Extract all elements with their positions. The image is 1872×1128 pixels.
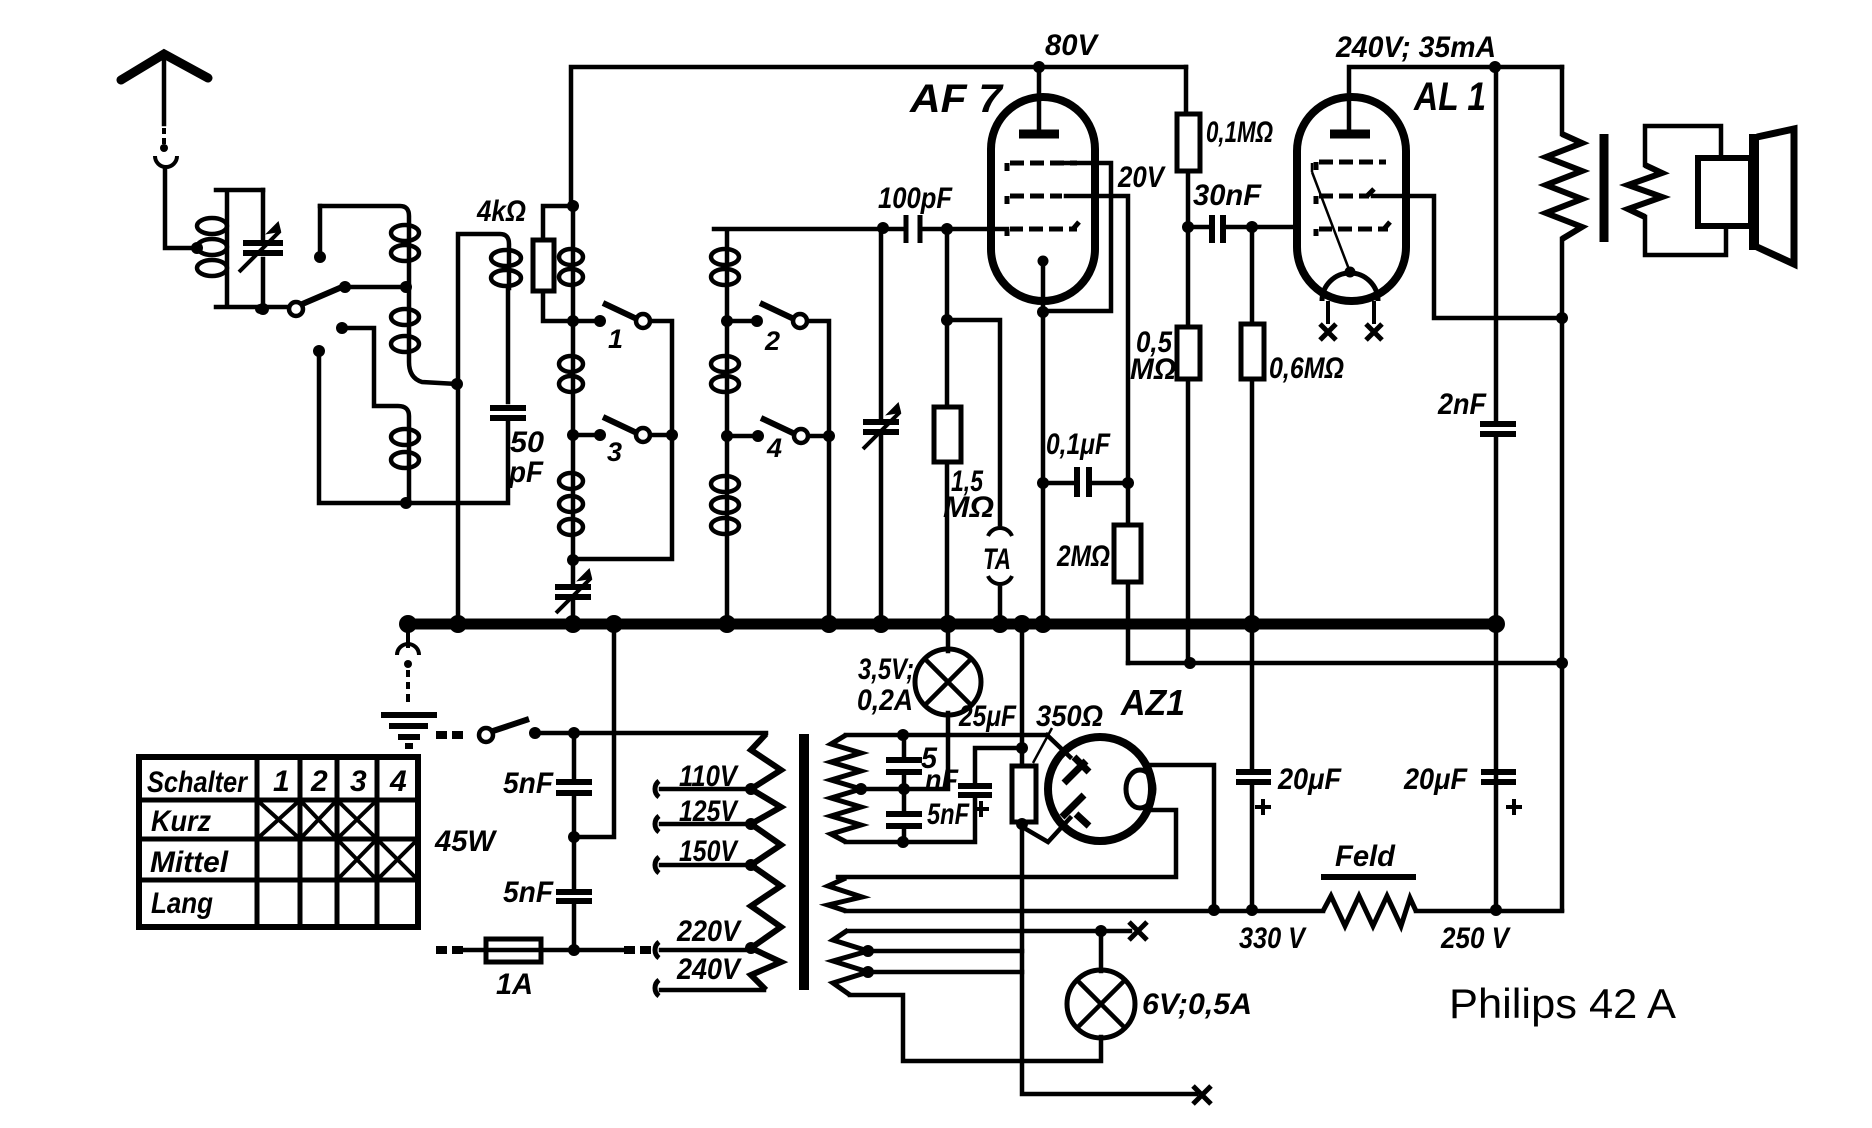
svg-text:Mittel: Mittel xyxy=(150,846,229,879)
svg-text:3: 3 xyxy=(350,765,367,798)
svg-text:MΩ: MΩ xyxy=(1130,353,1176,386)
svg-text:3,5V;: 3,5V; xyxy=(858,653,914,686)
svg-text:50: 50 xyxy=(510,426,544,459)
svg-text:0,1MΩ: 0,1MΩ xyxy=(1206,116,1273,149)
svg-text:MΩ: MΩ xyxy=(943,491,994,524)
svg-text:30nF: 30nF xyxy=(1193,179,1262,212)
svg-text:4: 4 xyxy=(389,765,407,798)
svg-text:80V: 80V xyxy=(1045,29,1100,62)
svg-text:0,2A: 0,2A xyxy=(857,684,913,717)
svg-text:350Ω: 350Ω xyxy=(1036,700,1103,733)
svg-text:1A: 1A xyxy=(496,968,533,1001)
svg-text:0,1μF: 0,1μF xyxy=(1046,428,1111,461)
svg-text:45W: 45W xyxy=(434,825,498,858)
svg-text:5nF: 5nF xyxy=(503,767,554,800)
svg-text:Kurz: Kurz xyxy=(151,805,211,838)
svg-text:4: 4 xyxy=(766,433,782,463)
svg-text:20V: 20V xyxy=(1117,161,1166,194)
svg-text:110V: 110V xyxy=(679,760,740,793)
svg-text:125V: 125V xyxy=(679,795,739,828)
svg-text:AF 7: AF 7 xyxy=(909,77,1004,121)
svg-text:150V: 150V xyxy=(679,835,739,868)
svg-text:5nF: 5nF xyxy=(927,798,970,831)
svg-text:1: 1 xyxy=(608,324,623,354)
svg-text:Schalter: Schalter xyxy=(147,766,249,799)
svg-text:2MΩ: 2MΩ xyxy=(1056,540,1110,573)
svg-text:2: 2 xyxy=(310,765,328,798)
svg-text:2: 2 xyxy=(764,326,780,356)
svg-text:5nF: 5nF xyxy=(503,876,554,909)
svg-text:AZ1: AZ1 xyxy=(1120,682,1185,723)
svg-text:2nF: 2nF xyxy=(1437,388,1486,421)
svg-text:TA: TA xyxy=(983,543,1011,576)
svg-text:20μF: 20μF xyxy=(1277,763,1342,796)
svg-text:Philips 42 A: Philips 42 A xyxy=(1449,980,1676,1027)
svg-text:240V; 35mA: 240V; 35mA xyxy=(1335,31,1496,64)
svg-text:4kΩ: 4kΩ xyxy=(476,195,526,228)
svg-text:1: 1 xyxy=(273,765,290,798)
svg-text:nF: nF xyxy=(925,764,959,797)
svg-text:240V: 240V xyxy=(676,953,743,986)
svg-text:330 V: 330 V xyxy=(1239,922,1308,955)
svg-text:100pF: 100pF xyxy=(878,182,953,215)
svg-text:Feld: Feld xyxy=(1335,840,1396,873)
svg-text:6V;0,5A: 6V;0,5A xyxy=(1142,988,1252,1021)
svg-text:3: 3 xyxy=(607,437,622,467)
svg-text:0,6MΩ: 0,6MΩ xyxy=(1269,352,1344,385)
svg-text:Lang: Lang xyxy=(151,887,213,920)
svg-text:pF: pF xyxy=(508,456,544,489)
svg-text:AL 1: AL 1 xyxy=(1413,75,1486,119)
svg-text:250 V: 250 V xyxy=(1440,922,1511,955)
svg-text:220V: 220V xyxy=(676,915,743,948)
svg-text:25μF: 25μF xyxy=(958,700,1016,733)
svg-text:20μF: 20μF xyxy=(1403,763,1468,796)
